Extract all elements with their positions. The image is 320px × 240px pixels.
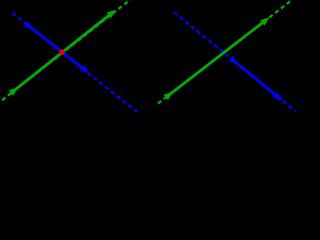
right diagram: blue worldline solid segment <box>235 61 278 96</box>
right diagram: blue arrowhead 2 (lower-right terminal) <box>273 92 283 101</box>
left diagram: green worldline solid segment <box>14 12 113 90</box>
right diagram: green arrowhead 1 (lower-left) <box>164 92 173 100</box>
left diagram: blue worldline dashed extension (full extent) <box>13 13 138 112</box>
left diagram: blue arrowhead 2 (lower-right) <box>80 65 89 73</box>
right diagram: blue worldline dashed extension (full extent) <box>174 12 296 111</box>
left diagram: green arrowhead 2 (upper-right) <box>107 10 116 18</box>
right diagram: green worldline solid segment <box>169 20 266 95</box>
left diagram: red intersection event dot <box>59 49 65 55</box>
left diagram: green worldline dashed extension (full extent) <box>2 0 132 100</box>
right diagram: green worldline dashed extension (full extent) <box>158 2 290 104</box>
left diagram: blue arrowhead 1 (upper-left) <box>24 21 33 29</box>
left diagram: green arrowhead 1 (lower-left) <box>9 87 18 95</box>
right diagram: blue arrowhead 1 (mid, after crossing) <box>229 56 238 64</box>
right diagram: green arrowhead 2 (upper-right) <box>260 17 269 25</box>
left diagram: blue worldline solid segment <box>30 27 86 71</box>
